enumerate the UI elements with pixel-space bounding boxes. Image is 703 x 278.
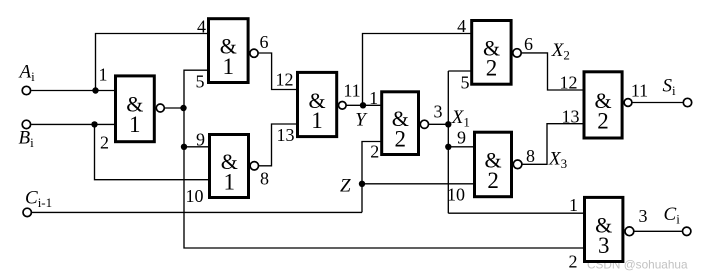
label Ci output [664, 204, 681, 227]
svg-text:11: 11 [631, 81, 648, 101]
pin 11 label G8 [631, 81, 648, 101]
svg-text:1: 1 [311, 108, 323, 133]
svg-text:Z: Z [340, 176, 351, 197]
pin 5 label G2 [196, 72, 205, 92]
pin 2 label G1 [100, 133, 109, 153]
svg-text:9: 9 [196, 130, 205, 150]
svg-text:3: 3 [434, 102, 443, 122]
pin 12 label G8 [560, 73, 578, 93]
pin 1 label G1 [99, 65, 108, 85]
pin 6 label G2 [260, 32, 269, 52]
junction dot node X1 at G7 pin9 [445, 144, 451, 150]
svg-text:1: 1 [129, 112, 141, 137]
pin 8 label G7 [526, 146, 535, 166]
svg-text:1: 1 [99, 65, 108, 85]
pin 3 label G5 [434, 102, 443, 122]
svg-text:2: 2 [597, 108, 609, 133]
pin 4 label G6 [457, 16, 466, 36]
junction dot node Z [359, 181, 365, 187]
wire G4 output 11 to node Y and G5 pin1 [347, 104, 382, 106]
svg-text:8: 8 [260, 169, 269, 189]
svg-text:6: 6 [260, 32, 269, 52]
svg-text:13: 13 [562, 107, 580, 127]
pin 9 label G7 [457, 128, 466, 148]
wire G6 output 6 node X2 to G8 pin12 [522, 53, 584, 90]
NAND gate G7 (&2 bottom) [475, 132, 512, 197]
label Ai [18, 62, 36, 85]
terminal Bi [22, 120, 30, 128]
NAND gate G9 (&3) [585, 197, 623, 261]
inverter bubble G8 output [624, 99, 632, 107]
svg-text:9: 9 [457, 128, 466, 148]
pin 10 label G3 [186, 186, 204, 206]
svg-text:1: 1 [224, 169, 236, 194]
junction dot node B [91, 121, 97, 127]
NAND gate G1 (&1) [116, 76, 155, 142]
svg-text:2: 2 [487, 168, 499, 193]
inverter bubble G3 output [250, 162, 258, 170]
pin 2 label G9 [569, 252, 578, 272]
svg-text:11: 11 [343, 81, 360, 101]
junction dot node P at G1 output [180, 105, 186, 111]
pin 6 label G6 [524, 34, 533, 54]
wire G9 output 3 to Ci terminal [634, 230, 682, 232]
NAND gate G8 (&2 right) [584, 72, 622, 138]
svg-text:1: 1 [369, 88, 378, 108]
label node X1 [451, 107, 470, 130]
label node Y [355, 110, 368, 131]
junction dot node A [92, 87, 98, 93]
inverter bubble G9 output [625, 227, 634, 236]
wire G5 output 3 to node X1 [429, 123, 448, 125]
svg-text:8: 8 [526, 146, 535, 166]
NAND gate G6 (&2 top) [472, 21, 511, 85]
wire Ci-1 input [32, 211, 362, 213]
inverter bubble G4 output [339, 102, 347, 110]
label Bi [19, 128, 35, 151]
wire node X1 to G7 pin9 [448, 146, 474, 148]
wire G3 output 8 to G4 pin13 [259, 124, 298, 166]
pin 10 label G7 [447, 185, 465, 205]
pin 12 label G4 [276, 70, 294, 90]
terminal Ci-1 [23, 208, 31, 216]
wire node Z to G7 pin10 [362, 183, 475, 185]
svg-text:4: 4 [457, 16, 466, 36]
wire node X1 to G9 pin1 [448, 212, 584, 214]
pin 3 label G9 [639, 206, 648, 226]
label node X3 [548, 149, 567, 172]
junction dot node X1 [445, 121, 451, 127]
inverter bubble G6 output [513, 49, 521, 57]
pin 8 label G3 [260, 169, 269, 189]
label node Z [340, 176, 351, 197]
watermark CSDN @sohuahua [587, 258, 688, 272]
svg-text:12: 12 [560, 73, 578, 93]
wire G1 output to node P [165, 107, 184, 109]
wire node P vertical to G2 pin5, G3 pin9 and G9 pin2 [184, 70, 585, 248]
svg-text:2: 2 [370, 141, 379, 161]
svg-text:2: 2 [569, 252, 578, 272]
svg-text:2: 2 [395, 126, 407, 151]
svg-text:3: 3 [639, 206, 648, 226]
label Si [663, 76, 677, 99]
terminal Si [683, 98, 691, 106]
svg-text:5: 5 [196, 72, 205, 92]
wire Ai to G2 pin4 [96, 34, 209, 91]
wire Ci-1 up to G5 pin2 [362, 142, 382, 213]
wire node Y up to G6 pin4 [363, 34, 472, 106]
NAND gate G3 (&1 bottom) [210, 135, 249, 198]
pin 4 label G2 [197, 17, 206, 37]
svg-text:2: 2 [486, 56, 498, 81]
pin 13 label G4 [277, 125, 295, 145]
inverter bubble G1 output [156, 104, 164, 112]
pin 1 label G5 [369, 88, 378, 108]
terminal Ci [683, 227, 691, 235]
wire node P to G3 pin9 [184, 146, 210, 148]
pin 1 label G9 [569, 195, 578, 215]
svg-text:1: 1 [569, 195, 578, 215]
wire node X1 to G6 pin5 [448, 70, 471, 72]
svg-text:3: 3 [598, 233, 610, 258]
svg-text:10: 10 [186, 186, 204, 206]
label Ci-1 [25, 188, 52, 211]
pin 2 label G5 [370, 141, 379, 161]
svg-text:1: 1 [223, 54, 235, 79]
pin 9 label G3 [196, 130, 205, 150]
svg-text:12: 12 [276, 70, 294, 90]
pin 11 label G4 [343, 81, 360, 101]
svg-text:13: 13 [277, 125, 295, 145]
wire G8 output 11 to Si terminal [633, 102, 683, 104]
junction dot node Y [360, 102, 366, 108]
svg-text:4: 4 [197, 17, 206, 37]
wire G2 output 6 to G4 pin12 [259, 53, 298, 90]
svg-text:5: 5 [461, 73, 470, 93]
pin 13 label G8 [562, 107, 580, 127]
terminal Ai [22, 86, 30, 94]
wire node X1 vertical [447, 71, 449, 213]
junction dot node P at G3 pin9 [181, 144, 187, 150]
wire Bi to G3 pin10 [95, 124, 210, 179]
svg-text:2: 2 [100, 133, 109, 153]
wire Ai input [31, 90, 115, 92]
inverter bubble G5 output [420, 120, 428, 128]
svg-text:10: 10 [447, 185, 465, 205]
NAND gate G5 (&2) [382, 92, 419, 155]
pin 5 label G6 [461, 73, 470, 93]
label node X2 [551, 40, 570, 63]
NAND gate G4 (&1 middle) [298, 72, 337, 136]
wire G7 output 8 node X3 to G8 pin13 [522, 124, 584, 165]
inverter bubble G2 output [250, 49, 258, 57]
NAND gate G2 (&1 top) [209, 19, 249, 83]
inverter bubble G7 output [513, 160, 522, 169]
svg-text:6: 6 [524, 34, 533, 54]
wire Bi input [31, 123, 115, 125]
